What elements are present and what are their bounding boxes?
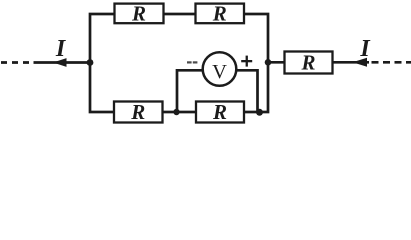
svg-text:R: R (212, 100, 227, 124)
svg-text:R: R (130, 100, 145, 124)
svg-text:I: I (55, 36, 67, 62)
svg-text:R: R (300, 50, 315, 74)
svg-text:R: R (131, 1, 146, 25)
svg-text:V: V (212, 61, 227, 83)
svg-text:R: R (212, 1, 227, 25)
svg-text:I: I (359, 36, 371, 62)
